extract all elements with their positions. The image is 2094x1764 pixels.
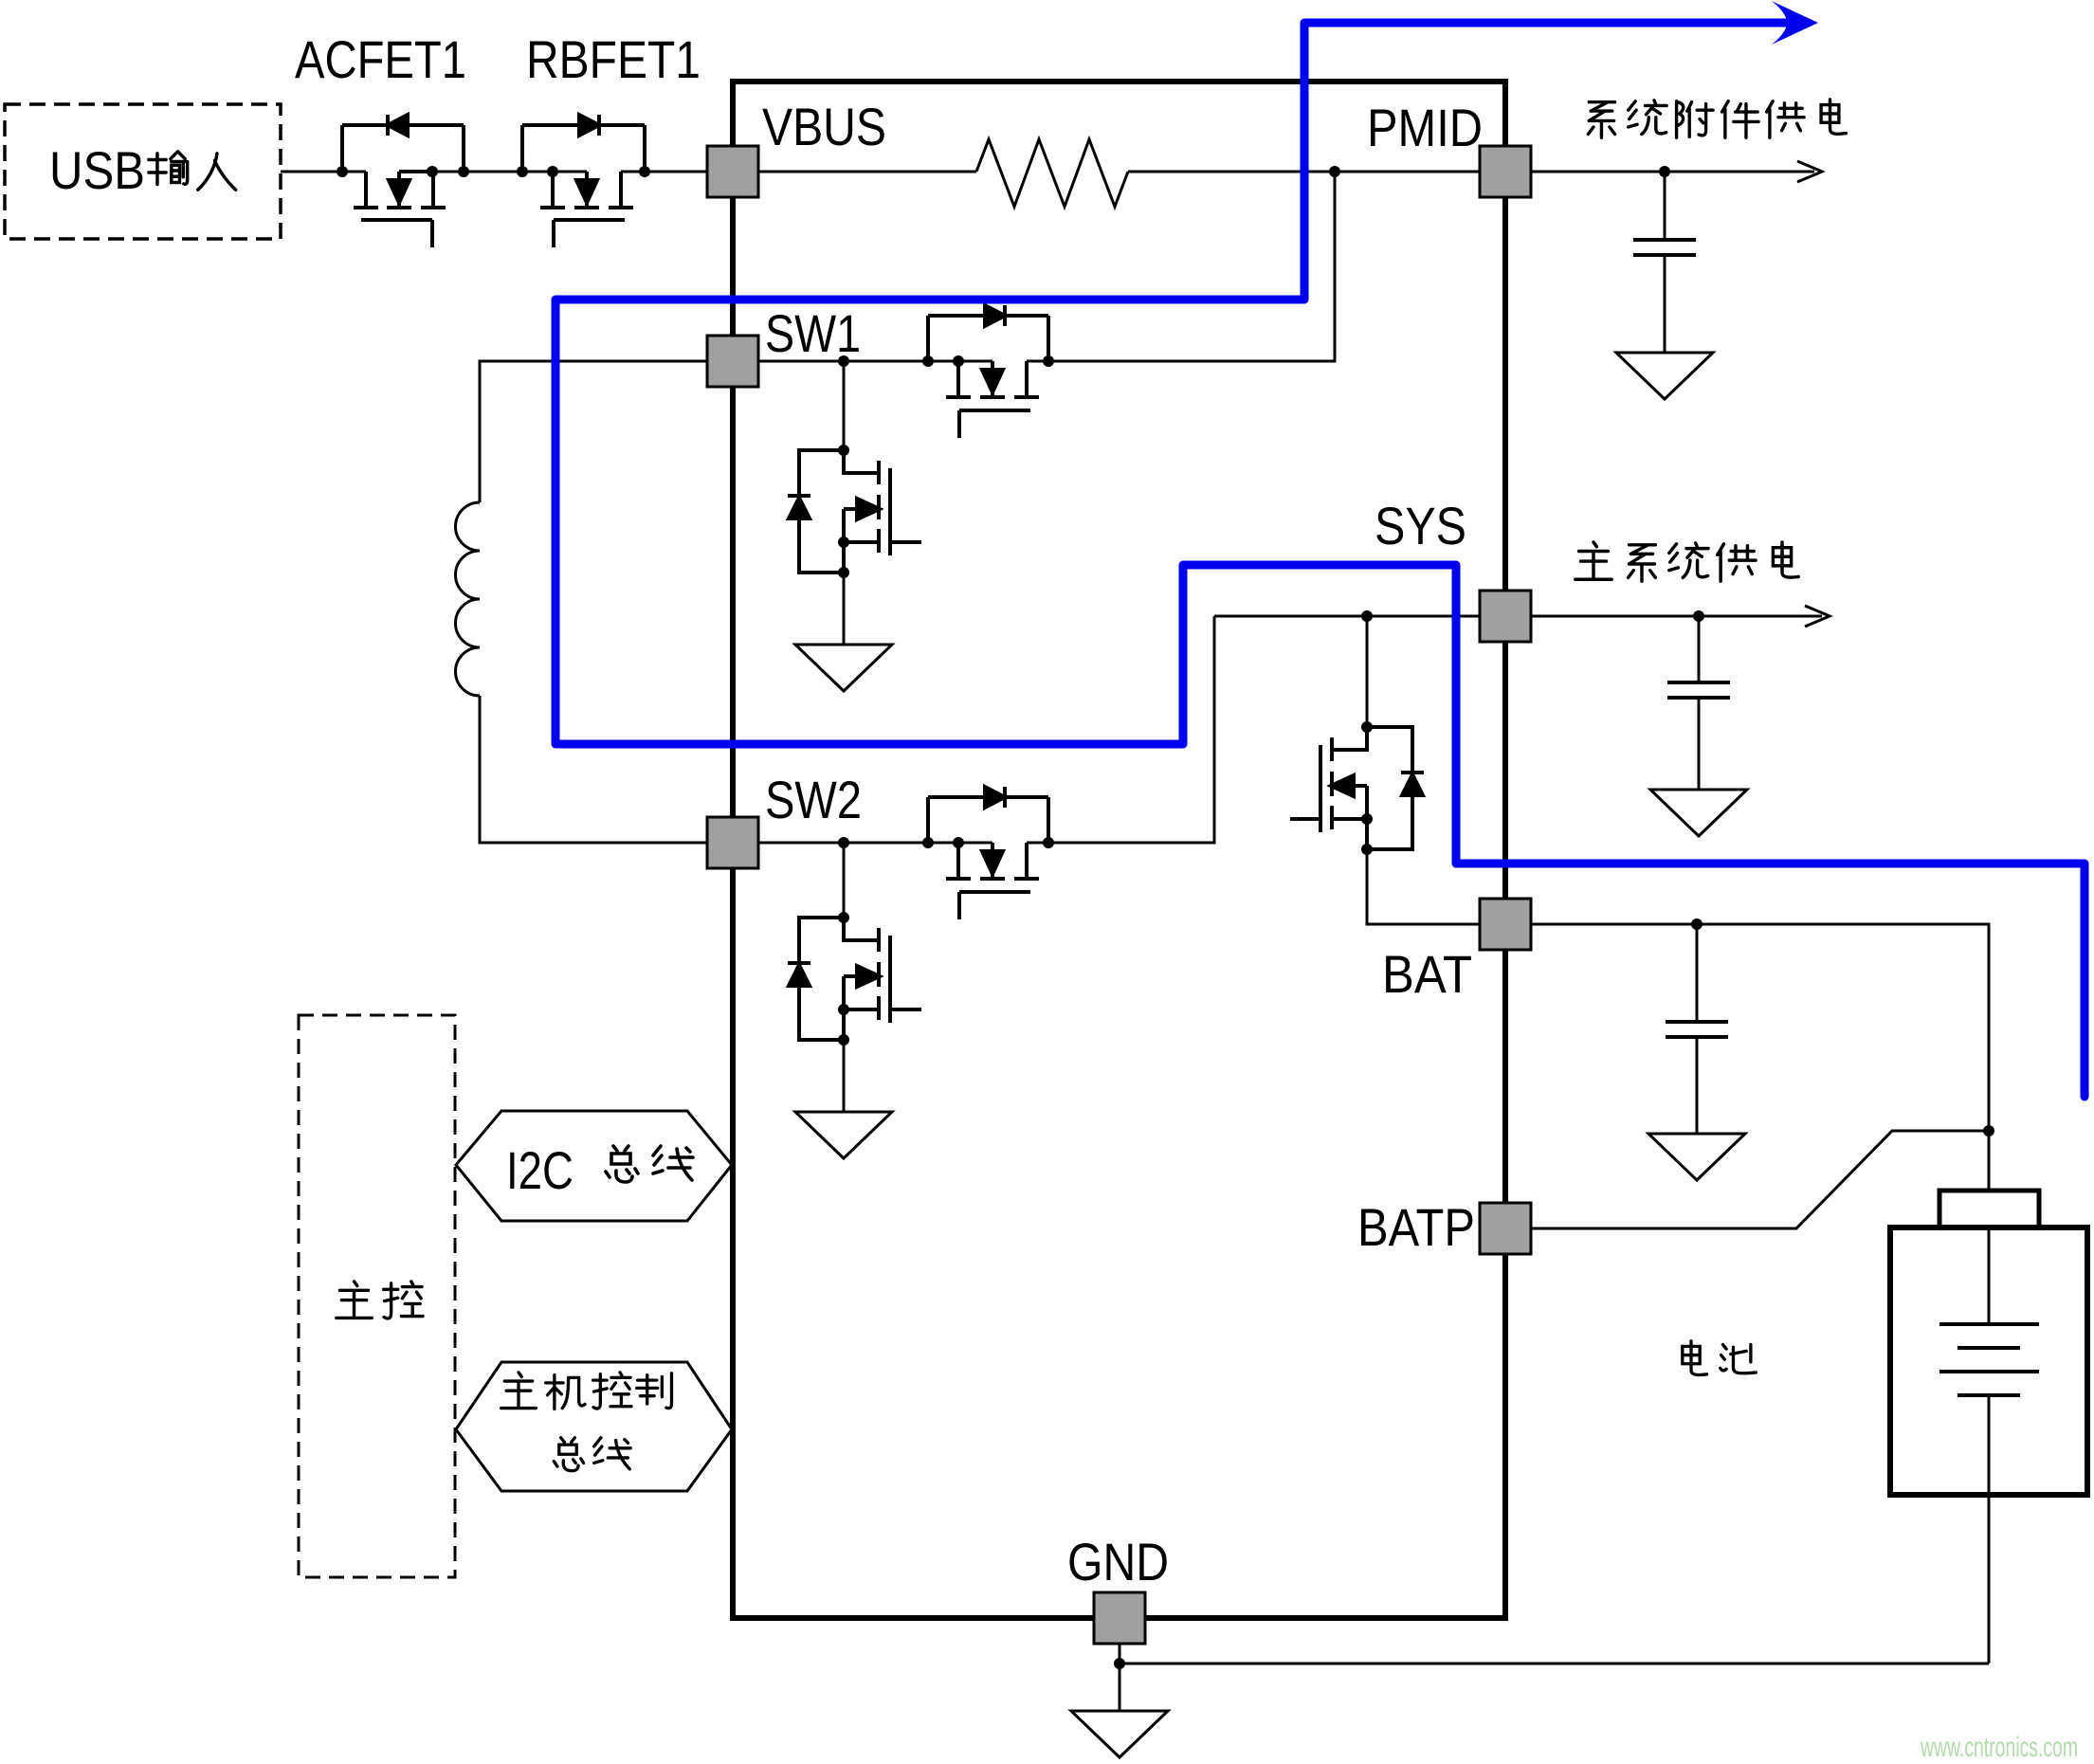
pin VBUS: [707, 146, 758, 197]
svg-text:SW1: SW1: [765, 303, 861, 363]
wire Q3 drain to SYS: [1027, 616, 1214, 843]
wire Q1 drain up to PMID node: [1026, 360, 1029, 363]
wire SW1 internal: [733, 360, 992, 363]
wire SYS node down to Q5: [1366, 616, 1369, 727]
USB input dashed box: [5, 104, 281, 239]
pin SW2: [707, 817, 758, 868]
battery BT1: [1890, 1191, 2087, 1495]
junction RBFET1 source: [547, 166, 558, 177]
junction SYS to battery FET: [1361, 610, 1373, 622]
transistor Q4 (SW2 low-side FET): [788, 918, 921, 1040]
transistor ACFET1: [342, 115, 464, 247]
inductor L1: [456, 361, 708, 843]
junction Q5 source-body: [1361, 813, 1373, 825]
capacitor C1 (PMID): [1633, 172, 1696, 353]
junction PMID cap: [1659, 166, 1670, 177]
junction Q2 drain: [838, 445, 849, 456]
junction Q3 drain-diode: [1043, 837, 1054, 848]
junction SYS cap: [1693, 610, 1704, 622]
junction Q3 diode left: [922, 837, 934, 848]
wire BATP sense: [1505, 1131, 1989, 1228]
junction GND node: [1114, 1658, 1125, 1669]
junction Q3 source: [953, 837, 964, 848]
hexagon host control bus: [456, 1362, 732, 1491]
junction BAT cap: [1691, 918, 1703, 930]
label I2C 总线: [506, 1140, 693, 1200]
pin SYS: [1480, 591, 1531, 642]
svg-text:RBFET1: RBFET1: [526, 29, 701, 89]
junction Q5 drain: [1361, 721, 1373, 733]
wire RBFET1 to VBUS pin: [621, 171, 733, 173]
junction SW2 low-side tap: [838, 837, 849, 848]
svg-text:www.cntronics.com: www.cntronics.com: [1920, 1732, 2078, 1763]
junction battery positive node: [1983, 1125, 1994, 1137]
svg-text:GND: GND: [1067, 1532, 1169, 1591]
wire PMID node down to Q1 drain: [1027, 172, 1335, 361]
wire BAT output: [1505, 924, 1989, 1191]
transistor Q2 (SW1 low-side FET): [788, 450, 921, 573]
svg-text:PMID: PMID: [1367, 98, 1483, 157]
host dashed box 主控: [299, 1015, 455, 1577]
pin BAT: [1480, 899, 1531, 950]
hexagon I2C bus: [456, 1111, 732, 1221]
ground below GND pin: [1071, 1711, 1168, 1757]
wire ACFET1 to RBFET1: [399, 171, 587, 173]
junction SW1 low-side tap: [838, 355, 849, 367]
junction ACFET1 source: [427, 166, 438, 177]
transistor Q3 (SW2 to SYS high-side FET): [928, 787, 1048, 919]
blue power path: [555, 23, 2085, 1097]
resistor VBUS-PMID: [976, 139, 1128, 207]
capacitor C2 (SYS): [1667, 616, 1730, 790]
junction Q2 source-body: [838, 536, 849, 548]
junction ACFET1 drain: [337, 166, 348, 177]
pin BATP: [1480, 1203, 1531, 1254]
pin GND: [1094, 1592, 1145, 1644]
junction Q4 drain: [838, 912, 849, 923]
arrowhead SYS output: [1805, 606, 1830, 627]
junction Q1 drain-diode: [1043, 355, 1054, 367]
junction Q2 source-diode: [838, 567, 849, 578]
wire GND pin down: [1119, 1618, 1121, 1711]
wire Q5 source to BAT pin: [1367, 849, 1505, 924]
wire GND to battery negative: [1120, 1663, 1989, 1665]
svg-text:VBUS: VBUS: [762, 97, 886, 156]
wire SYS internal: [1214, 615, 1505, 618]
wire SW2 internal: [733, 842, 992, 845]
wire resistor to PMID pin: [1128, 171, 1505, 173]
wire PMID output: [1505, 171, 1814, 173]
svg-text:SW2: SW2: [765, 770, 862, 829]
junction Q1 diode left: [922, 355, 934, 367]
transistor Q5 (BAT FET): [1290, 727, 1424, 849]
arrowhead PMID output: [1797, 161, 1822, 182]
junction RBFET1 diode left: [517, 166, 528, 177]
ground below Q4: [795, 1112, 892, 1158]
pin PMID: [1480, 146, 1531, 197]
junction Q4 source-diode: [838, 1034, 849, 1046]
blue arrowhead: [1772, 1, 1818, 45]
pin SW1: [707, 336, 758, 387]
ground below C1: [1616, 353, 1713, 399]
wire Q4 source to ground: [843, 1040, 846, 1112]
label 系统附件供电: [1588, 100, 1846, 137]
transistor RBFET1: [522, 115, 645, 247]
label USB输入: [49, 140, 236, 200]
capacitor C3 (BAT): [1666, 924, 1728, 1134]
wire SYS output: [1505, 615, 1822, 618]
wire battery negative: [1988, 1495, 1991, 1664]
wire USB to ACFET1: [281, 171, 366, 173]
junction RBFET1 drain: [639, 166, 650, 177]
transistor Q1 (SW1 to PMID high-side FET): [928, 305, 1048, 438]
wire SW2 tap down to Q4: [843, 843, 846, 918]
svg-text:I2C: I2C: [506, 1140, 574, 1200]
ground below Q2: [795, 645, 892, 691]
label 主机控制总线: [501, 1373, 672, 1471]
junction PMID internal node: [1329, 166, 1340, 177]
wire VBUS to resistor: [733, 171, 976, 173]
ground below C3: [1648, 1134, 1745, 1180]
junction Q4 source-body: [838, 1004, 849, 1015]
label 主系统供电: [1575, 542, 1798, 581]
wire SW1 tap down to Q2: [843, 361, 846, 450]
junction Q5 source-diode: [1361, 844, 1373, 855]
svg-text:BATP: BATP: [1357, 1197, 1475, 1257]
svg-text:SYS: SYS: [1375, 496, 1466, 555]
junction ACFET1 diode: [458, 166, 469, 177]
label 电池: [1683, 1341, 1757, 1375]
label 主控: [337, 1282, 423, 1318]
junction Q1 source: [953, 355, 964, 367]
wire Q2 source to ground: [843, 573, 846, 645]
IC boundary U1: [733, 82, 1505, 1618]
svg-text:ACFET1: ACFET1: [295, 29, 466, 89]
ground below C2: [1650, 790, 1747, 836]
svg-text:BAT: BAT: [1382, 944, 1472, 1004]
svg-text:USB: USB: [49, 140, 145, 200]
